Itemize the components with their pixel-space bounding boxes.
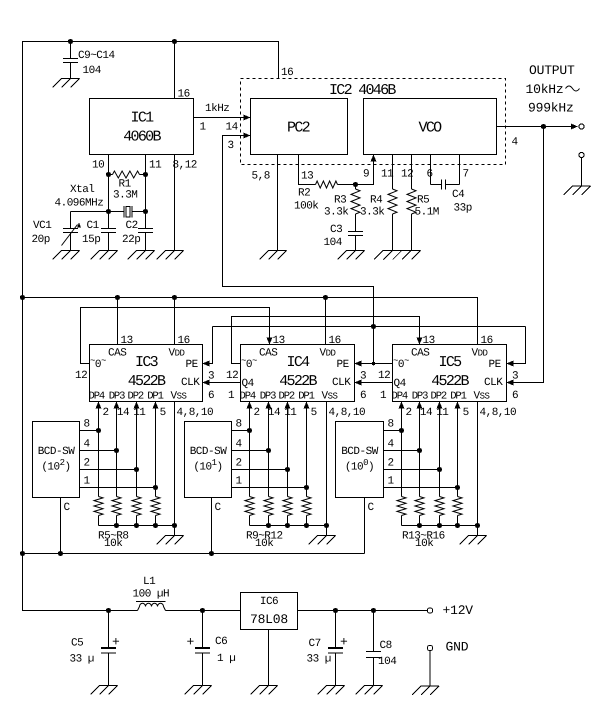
svg-text:IC5: IC5 xyxy=(439,354,463,371)
resistor pulldown DP1 (IC5) xyxy=(453,497,462,526)
wire VSS pins 4,8,10 to ground (IC4) xyxy=(326,402,328,536)
wire DP1 pin (IC5) xyxy=(457,408,459,497)
wire BCD common C line xyxy=(23,553,365,555)
svg-text:16: 16 xyxy=(281,67,293,79)
pin arrow into DP3 (IC3) xyxy=(114,402,120,409)
wire DP4 pin (IC4) xyxy=(249,408,251,497)
capacitor C9~C14 xyxy=(63,42,78,79)
svg-text:1 µ: 1 µ xyxy=(217,653,235,665)
IC2 VCO box xyxy=(364,99,497,155)
svg-text:PC2: PC2 xyxy=(287,120,310,137)
svg-text:R3: R3 xyxy=(334,195,346,207)
wire IC3 pin12 to IC4 CAS pin13 xyxy=(81,308,270,364)
node PE line junction xyxy=(371,324,376,329)
wire DP2 pin (IC3) xyxy=(136,408,138,497)
svg-text:VSS: VSS xyxy=(474,391,490,403)
node R1 left junction xyxy=(106,172,111,177)
svg-text:8: 8 xyxy=(236,419,242,431)
resistor pulldown DP2 (IC3) xyxy=(132,497,141,526)
ground (VSS IC4) xyxy=(309,536,336,545)
resistor pulldown DP1 (IC3) xyxy=(151,497,160,526)
svg-text:2: 2 xyxy=(84,458,90,470)
node junction resistor line x=287.5 (IC4) xyxy=(285,523,290,528)
svg-text:R5: R5 xyxy=(417,195,429,207)
svg-text:4522B: 4522B xyxy=(431,373,469,390)
wire VDD bus to counters xyxy=(23,298,478,345)
node C line left junction xyxy=(20,551,25,556)
pin arrow into DP4 (IC5) xyxy=(399,402,405,409)
node R2/R3/pin9 junction xyxy=(353,182,358,187)
svg-text:4: 4 xyxy=(512,137,519,149)
node GND terminal circle xyxy=(427,645,432,650)
node junction DP2/BCD (IC4) xyxy=(285,467,290,472)
node junction DP3/BCD (IC3) xyxy=(114,448,119,453)
pin arrow into DP1 (IC5) xyxy=(455,402,461,409)
svg-text:OUTPUT: OUTPUT xyxy=(529,63,575,78)
svg-text:DP1: DP1 xyxy=(298,391,314,403)
svg-text:BCD-SW: BCD-SW xyxy=(190,446,228,458)
node C line BCD1 junction xyxy=(58,551,63,556)
svg-text:DP3: DP3 xyxy=(109,391,125,403)
ground (C2) xyxy=(128,251,155,260)
node junction resistor line x=116.5 (IC3) xyxy=(114,523,119,528)
pin arrow into DP3 (IC4) xyxy=(266,402,272,409)
svg-text:12: 12 xyxy=(75,370,87,382)
svg-text:4: 4 xyxy=(84,439,91,451)
svg-text:CAS: CAS xyxy=(108,348,127,360)
svg-text:10kHz: 10kHz xyxy=(526,82,564,97)
svg-text:Q4: Q4 xyxy=(394,378,407,390)
svg-text:4,8,10: 4,8,10 xyxy=(177,407,214,419)
svg-text:PE: PE xyxy=(489,359,502,371)
svg-text:16: 16 xyxy=(178,335,190,347)
svg-text:2: 2 xyxy=(103,407,109,419)
svg-text:11: 11 xyxy=(381,169,394,181)
capacitor C2 xyxy=(138,229,153,251)
svg-text:3: 3 xyxy=(512,371,518,383)
wire BCD C pin (IC5) xyxy=(364,498,366,554)
svg-text:33 µ: 33 µ xyxy=(307,654,331,666)
wire IC6 input to +12V terminal xyxy=(298,610,428,612)
pin arrow into DP1 (IC3) xyxy=(153,402,159,409)
wire BCD C pin (IC4) xyxy=(211,498,213,554)
node C line BCD2 junction xyxy=(209,551,214,556)
svg-text:PE: PE xyxy=(186,359,199,371)
svg-text:C6: C6 xyxy=(215,636,227,648)
svg-text:3.3k: 3.3k xyxy=(324,207,349,219)
svg-text:+: + xyxy=(112,635,120,650)
node junction DP4/BCD (IC3) xyxy=(96,428,101,433)
svg-text:VCO: VCO xyxy=(419,120,443,137)
wire VSS pins 4,8,10 to ground (IC3) xyxy=(174,402,176,536)
wire IC1 pins 8,12 down to ground xyxy=(174,155,176,251)
IC6 78L08 box xyxy=(241,593,298,630)
pin arrow into DP3 (IC5) xyxy=(417,402,423,409)
node junction resistor line VSS (IC3) xyxy=(172,523,177,528)
svg-text:DP4: DP4 xyxy=(89,391,105,403)
svg-text:IC2 4046B: IC2 4046B xyxy=(329,82,396,99)
ground (PC2 pins 5,8) xyxy=(260,251,287,260)
node junction resistor line x=155.5 (IC3) xyxy=(153,523,158,528)
wire IC4 PE to IC5 pin12 xyxy=(362,363,393,365)
node junction DP2/BCD (IC5) xyxy=(437,467,442,472)
wire L1 to IC6 input xyxy=(166,610,241,612)
ground (C5) xyxy=(91,686,118,695)
svg-text:VC1: VC1 xyxy=(33,220,52,232)
node junction IC3 VDD xyxy=(172,295,177,300)
svg-text:100k: 100k xyxy=(294,201,319,213)
node output terminal circle xyxy=(579,124,584,129)
svg-text:16: 16 xyxy=(178,89,190,101)
resistor pulldown DP3 (IC5) xyxy=(415,497,424,526)
svg-text:7: 7 xyxy=(463,169,469,181)
svg-text:2: 2 xyxy=(254,407,260,419)
svg-text:4: 4 xyxy=(388,439,395,451)
svg-text:6: 6 xyxy=(360,390,366,402)
capacitor C6 1u xyxy=(195,611,210,686)
capacitor VC1 trimmer xyxy=(62,212,82,251)
wire IC4 pin12 to IC5 CAS pin13 xyxy=(232,317,420,364)
capacitor C5 33u xyxy=(101,611,116,686)
node junction DP4/BCD (IC4) xyxy=(247,428,252,433)
svg-text:999kHz: 999kHz xyxy=(528,101,574,116)
svg-text:1kHz: 1kHz xyxy=(205,103,229,115)
svg-text:DP3: DP3 xyxy=(412,391,428,403)
svg-text:BCD-SW: BCD-SW xyxy=(341,446,379,458)
svg-text:C1: C1 xyxy=(87,220,100,232)
svg-text:DP2: DP2 xyxy=(279,391,295,403)
pin arrow into PC2 pin3 xyxy=(244,133,251,139)
svg-text:2: 2 xyxy=(388,458,394,470)
svg-text:C3: C3 xyxy=(330,224,342,236)
wire resistor bottom line (IC3) xyxy=(99,525,175,527)
wire IC3 CAS pin13 to bus xyxy=(117,298,119,345)
svg-text:4.096MHz: 4.096MHz xyxy=(55,198,104,210)
svg-text:CAS: CAS xyxy=(411,348,430,360)
node junction resistor line x=136.5 (IC3) xyxy=(134,523,139,528)
node C6 junction xyxy=(200,608,205,613)
resistor pulldown DP4 (IC3) xyxy=(94,497,103,526)
svg-text:IC4: IC4 xyxy=(287,354,311,371)
svg-text:14: 14 xyxy=(420,407,433,419)
node junction DP3/BCD (IC4) xyxy=(266,448,271,453)
wire output ground terminal xyxy=(581,158,583,186)
svg-text:13: 13 xyxy=(273,335,285,347)
svg-text:+: + xyxy=(187,635,195,650)
wire BCD 2 to DP2 (IC4) xyxy=(232,469,288,471)
wire BCD 1 to DP1 (IC4) xyxy=(232,487,307,489)
svg-text:1: 1 xyxy=(200,122,207,134)
IC2 4046B dashed outline xyxy=(241,79,506,165)
resistor R1 xyxy=(109,171,146,178)
svg-text:3: 3 xyxy=(360,371,366,383)
wire DP1 pin (IC4) xyxy=(306,408,308,497)
svg-text:3: 3 xyxy=(228,140,234,152)
ground (IC6) xyxy=(251,686,278,695)
svg-text:2: 2 xyxy=(406,407,412,419)
node junction resistor line x=306.5 (IC4) xyxy=(304,523,309,528)
svg-text:IC3: IC3 xyxy=(135,354,159,371)
svg-text:5.1M: 5.1M xyxy=(415,207,439,219)
node VDD rail junction at C9 xyxy=(68,39,73,44)
wire BCD 2 to DP2 (IC3) xyxy=(80,469,137,471)
svg-text:C8: C8 xyxy=(380,640,392,652)
svg-text:+: + xyxy=(340,635,348,650)
resistor R2 100k xyxy=(316,181,356,188)
svg-text:4: 4 xyxy=(236,439,243,451)
node junction IC4 VDD xyxy=(323,295,328,300)
node junction DP3/BCD (IC5) xyxy=(417,448,422,453)
ground (GND terminal) xyxy=(412,686,439,695)
wire VDD top rail xyxy=(23,42,279,298)
capacitor C4 33p between VCO pins 6 and 7 xyxy=(431,155,460,190)
ground (C3) xyxy=(338,251,365,260)
svg-text:4,8,10: 4,8,10 xyxy=(480,407,517,419)
svg-text:DP2: DP2 xyxy=(128,391,144,403)
svg-text:10k: 10k xyxy=(104,538,123,550)
wire PE line xyxy=(213,326,526,328)
svg-text:6: 6 xyxy=(427,169,433,181)
node junction resistor line x=419.5 (IC5) xyxy=(417,523,422,528)
ground (VC1) xyxy=(53,251,80,260)
svg-text:GND: GND xyxy=(446,640,469,655)
svg-text:C: C xyxy=(64,502,71,514)
node junction resistor line VSS (IC4) xyxy=(324,523,329,528)
svg-text:12: 12 xyxy=(401,169,413,181)
wire BCD 8 to DP4 (IC5) xyxy=(384,430,402,432)
pin arrow into DP2 (IC3) xyxy=(134,402,140,409)
wire PC2 pin3 feedback net xyxy=(223,136,374,364)
node junction IC3 CAS xyxy=(115,295,120,300)
pin arrow into DP1 (IC4) xyxy=(304,402,310,409)
pin arrow into IC4 CAS pin13 xyxy=(267,338,273,345)
node junction DP1/BCD (IC5) xyxy=(455,485,460,490)
svg-text:3: 3 xyxy=(208,371,214,383)
IC3 4522B box xyxy=(90,345,203,402)
BCD-SW (10^0) box xyxy=(336,422,384,498)
BCD-SW (10^1) box xyxy=(185,422,232,498)
pin arrow into PC2 pin14 xyxy=(244,115,251,121)
svg-text:33p: 33p xyxy=(454,203,472,215)
svg-text:PE: PE xyxy=(337,359,350,371)
IC5 4522B box xyxy=(393,345,507,402)
node VDD bus left junction xyxy=(20,295,25,300)
node junction DP2/BCD (IC3) xyxy=(134,467,139,472)
wire BCD 8 to DP4 (IC3) xyxy=(80,430,99,432)
svg-text:11: 11 xyxy=(284,407,297,419)
svg-text:2: 2 xyxy=(236,458,242,470)
svg-text:C: C xyxy=(215,502,222,514)
ground (C7) xyxy=(318,686,345,695)
svg-text:CLK: CLK xyxy=(181,377,200,389)
wire VCO pin4 output xyxy=(497,126,572,128)
svg-text:CAS: CAS xyxy=(259,348,278,360)
svg-text:11: 11 xyxy=(149,160,162,172)
wire DP3 pin (IC5) xyxy=(419,408,421,497)
wire PC2 pin13 to R2 xyxy=(299,155,316,185)
svg-text:13: 13 xyxy=(301,171,313,183)
svg-text:10k: 10k xyxy=(415,538,434,550)
resistor pulldown DP4 (IC4) xyxy=(245,497,254,526)
svg-text:1: 1 xyxy=(236,476,243,488)
wire DP4 pin (IC5) xyxy=(401,408,403,497)
wire PC2 pins 5,8 to ground xyxy=(277,155,279,251)
svg-text:12: 12 xyxy=(378,370,390,382)
wire IC1 pin10 down xyxy=(108,155,110,229)
pin arrow into IC5 CLK pin6 xyxy=(507,380,514,386)
svg-text:14: 14 xyxy=(268,407,281,419)
svg-text:VDD: VDD xyxy=(472,348,488,360)
svg-text:DP1: DP1 xyxy=(147,391,163,403)
node junction resistor line x=439.5 (IC5) xyxy=(437,523,442,528)
svg-text:DP4: DP4 xyxy=(392,391,408,403)
wire BCD 1 to DP1 (IC5) xyxy=(384,487,458,489)
IC4 4522B box xyxy=(241,345,355,402)
inductor L1 100uH xyxy=(136,602,166,611)
ground (C8) xyxy=(356,686,383,695)
svg-text:R2: R2 xyxy=(298,188,310,200)
wire resistor bottom line (IC4) xyxy=(250,525,327,527)
node C8 junction xyxy=(371,608,376,613)
svg-text:104: 104 xyxy=(378,656,397,668)
svg-text:16: 16 xyxy=(481,335,493,347)
svg-text:VSS: VSS xyxy=(322,391,338,403)
capacitor C7 33u xyxy=(328,611,343,686)
svg-text:CLK: CLK xyxy=(484,377,503,389)
svg-text:VDD: VDD xyxy=(169,348,185,360)
svg-text:10: 10 xyxy=(92,160,104,172)
svg-text:10k: 10k xyxy=(255,538,274,550)
wire DP3 pin (IC4) xyxy=(268,408,270,497)
pin arrow into DP2 (IC5) xyxy=(437,402,443,409)
svg-text:IC6: IC6 xyxy=(260,596,278,608)
svg-text:3.3k: 3.3k xyxy=(360,207,385,219)
svg-text:15p: 15p xyxy=(82,234,100,246)
pin arrow into IC3 CLK pin6 xyxy=(203,380,210,386)
svg-text:13: 13 xyxy=(423,335,435,347)
ground (C1) xyxy=(91,251,118,260)
wire left rail down to +8V rail xyxy=(23,298,138,611)
wire BCD 2 to DP2 (IC5) xyxy=(384,469,440,471)
resistor pulldown DP4 (IC5) xyxy=(397,497,406,526)
wire DP4 pin (IC3) xyxy=(98,408,100,497)
svg-text:1: 1 xyxy=(388,476,395,488)
wire BCD 4 to DP3 (IC5) xyxy=(384,450,420,452)
node junction resistor line x=457.5 (IC5) xyxy=(455,523,460,528)
wire IC4 VDD pin16 to bus xyxy=(325,298,327,345)
wire IC1 pin16 to VDD rail xyxy=(174,42,176,99)
wire IC6 ground pin xyxy=(268,630,270,686)
svg-text:5: 5 xyxy=(311,407,317,419)
svg-text:+12V: +12V xyxy=(443,603,474,618)
wire BCD C pin (IC3) xyxy=(60,498,62,554)
svg-text:78L08: 78L08 xyxy=(250,612,288,627)
svg-text:1: 1 xyxy=(84,476,91,488)
wire DP3 pin (IC3) xyxy=(116,408,118,497)
node crystal left junction xyxy=(106,209,111,214)
pin arrow into DP4 (IC3) xyxy=(96,402,102,409)
capacitor C1 xyxy=(101,229,116,251)
svg-text:Xtal: Xtal xyxy=(70,184,94,196)
svg-text:104: 104 xyxy=(83,65,102,77)
wire VCO output to IC5 CLK xyxy=(514,127,544,383)
wire BCD 1 to DP1 (IC3) xyxy=(80,487,156,489)
node output junction xyxy=(541,124,546,129)
svg-text:C4: C4 xyxy=(452,189,465,201)
node junction resistor line x=268.5 (IC4) xyxy=(266,523,271,528)
svg-text:8,12: 8,12 xyxy=(173,160,197,172)
svg-text:IC1: IC1 xyxy=(131,110,155,127)
svg-text:1: 1 xyxy=(228,390,235,402)
svg-text:4522B: 4522B xyxy=(279,373,317,390)
wire resistor bottom line (IC5) xyxy=(402,525,478,527)
pin arrow into DP2 (IC4) xyxy=(285,402,291,409)
svg-text:C2: C2 xyxy=(126,220,138,232)
ground (C6) xyxy=(185,686,212,695)
capacitor C8 104 xyxy=(366,611,381,686)
ground (IC1 pins 8,12) xyxy=(157,251,184,260)
wire junction to VCO pin9 xyxy=(356,162,374,185)
svg-text:Q4: Q4 xyxy=(242,378,255,390)
pin arrow into IC5 CAS pin13 xyxy=(417,338,423,345)
wire BCD 8 to DP4 (IC4) xyxy=(232,430,250,432)
svg-text:C7: C7 xyxy=(309,638,321,650)
node C5 junction xyxy=(106,608,111,613)
svg-text:6: 6 xyxy=(512,390,518,402)
svg-text:C9~C14: C9~C14 xyxy=(78,50,116,62)
node VDD rail junction at IC1 pin16 xyxy=(172,39,177,44)
svg-text:5,8: 5,8 xyxy=(252,171,270,183)
svg-text:22p: 22p xyxy=(122,234,140,246)
wire IC5 PE riser xyxy=(514,327,526,364)
pin arrow into DP4 (IC4) xyxy=(247,402,253,409)
svg-text:8: 8 xyxy=(388,419,394,431)
svg-text:11: 11 xyxy=(436,407,449,419)
node junction DP1/BCD (IC4) xyxy=(304,485,309,490)
svg-text:C5: C5 xyxy=(71,638,83,650)
wire DP2 pin (IC4) xyxy=(287,408,289,497)
resistor pulldown DP2 (IC5) xyxy=(435,497,444,526)
svg-text:3.3M: 3.3M xyxy=(113,190,137,202)
node C7 junction xyxy=(333,608,338,613)
svg-text:BCD-SW: BCD-SW xyxy=(38,446,76,458)
ground (R4,R5) xyxy=(374,251,421,260)
resistor pulldown DP3 (IC4) xyxy=(264,497,273,526)
svg-text:DP3: DP3 xyxy=(260,391,276,403)
node T junction PE/pin12 xyxy=(372,362,376,366)
capacitor C3 xyxy=(348,232,363,251)
svg-text:16: 16 xyxy=(329,335,341,347)
node +12V terminal circle xyxy=(427,608,432,613)
svg-text:R4: R4 xyxy=(370,195,383,207)
svg-text:4060B: 4060B xyxy=(123,129,161,146)
svg-text:VDD: VDD xyxy=(320,348,336,360)
IC2 PC2 box xyxy=(251,99,348,155)
node junction DP4/BCD (IC5) xyxy=(399,428,404,433)
wire BCD 4 to DP3 (IC3) xyxy=(80,450,117,452)
svg-text:14: 14 xyxy=(117,407,130,419)
svg-text:DP1: DP1 xyxy=(450,391,466,403)
pin arrow into IC4 CLK pin6 xyxy=(355,380,362,386)
ground (VSS IC3) xyxy=(157,536,184,545)
ground (C9~C14) xyxy=(53,79,80,88)
svg-text:100 µH: 100 µH xyxy=(133,589,170,601)
svg-text:DP2: DP2 xyxy=(431,391,447,403)
pin arrow into IC5 PE pin3 xyxy=(507,361,514,367)
svg-text:20p: 20p xyxy=(32,234,50,246)
wire IC1 pin11 down xyxy=(145,155,147,229)
wire IC4 CLK to IC5 Q4 pin1 xyxy=(362,382,393,384)
